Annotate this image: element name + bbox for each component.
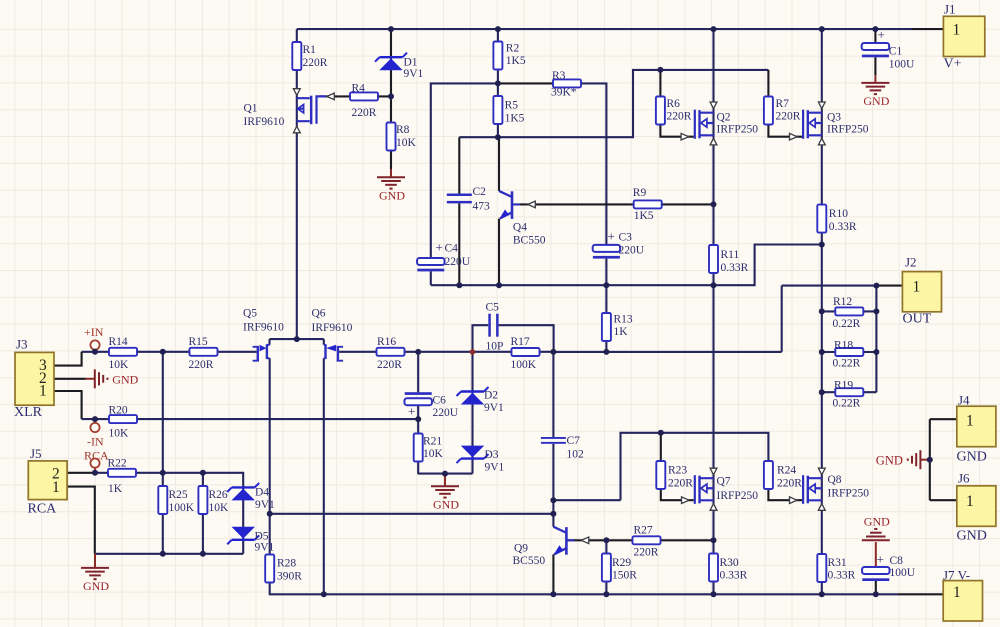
wire C1 top stub: [874, 29, 876, 43]
svg-text:D1: D1: [404, 57, 418, 69]
arrow Q3 gate: [790, 133, 798, 140]
junction: [92, 416, 98, 422]
connector J6: [957, 471, 996, 544]
svg-text:10K: 10K: [109, 428, 130, 440]
junction: [873, 283, 879, 289]
wire J5 ground stem: [94, 554, 96, 568]
svg-text:GND: GND: [876, 454, 903, 468]
svg-text:J5: J5: [30, 446, 42, 461]
svg-text:1K5: 1K5: [505, 113, 525, 125]
wire R3 left: [498, 82, 554, 84]
wire C5 bracket: [473, 325, 554, 352]
wire R29 line: [605, 540, 607, 594]
capacitor C1: [862, 27, 915, 71]
junction: [550, 511, 556, 517]
arrow Q8 gate: [790, 497, 798, 504]
svg-text:GND: GND: [433, 497, 459, 511]
wire R6 to Q2 gate: [660, 125, 693, 137]
svg-text:0.22R: 0.22R: [833, 358, 861, 370]
wire R8 ground stem: [390, 169, 392, 177]
arrow Q3 drain: [818, 102, 825, 109]
resistor R16: [377, 336, 405, 371]
wire Q9 emitter: [552, 554, 554, 594]
svg-text:1K: 1K: [614, 326, 629, 338]
svg-text:1: 1: [966, 493, 974, 510]
svg-text:IRFP250: IRFP250: [827, 124, 869, 136]
svg-text:R30: R30: [720, 557, 739, 569]
svg-text:0.33R: 0.33R: [828, 570, 856, 582]
junction: [658, 430, 664, 436]
zener diode D2: [457, 387, 505, 414]
resistor R26: [198, 486, 229, 514]
resistor R25: [158, 486, 194, 514]
svg-text:BC550: BC550: [513, 235, 546, 247]
arrow Q1 drain: [293, 126, 300, 133]
junction: [92, 470, 98, 476]
svg-text:1: 1: [953, 584, 961, 601]
svg-text:GND: GND: [379, 188, 405, 202]
svg-text:R29: R29: [612, 557, 631, 569]
svg-text:Q9: Q9: [514, 543, 528, 555]
connector J4: [957, 393, 996, 465]
svg-text:RCA: RCA: [84, 449, 109, 463]
svg-text:R12: R12: [833, 296, 852, 308]
junction: [470, 349, 476, 355]
svg-text:R21: R21: [423, 436, 442, 448]
svg-text:10P: 10P: [486, 341, 504, 353]
wire OUT node: [782, 285, 877, 287]
arrow Q4 base: [528, 201, 536, 208]
svg-text:J7 V-: J7 V-: [943, 568, 970, 583]
resistor R8: [387, 123, 417, 151]
transistor Q7: [694, 475, 759, 504]
wire +IN stem: [94, 349, 96, 352]
arrow Q8 source: [818, 504, 825, 511]
svg-text:10K: 10K: [396, 137, 417, 149]
junction: [711, 26, 717, 32]
svg-text:39K*: 39K*: [551, 87, 577, 99]
junction: [92, 349, 98, 355]
junction: [200, 470, 206, 476]
svg-text:102: 102: [567, 449, 585, 461]
wire R6 top stub: [659, 70, 661, 97]
svg-text:Q6: Q6: [312, 308, 326, 320]
svg-text:220R: 220R: [777, 478, 802, 490]
svg-text:220U: 220U: [619, 245, 645, 257]
junction: [160, 470, 166, 476]
resistor R29: [602, 554, 637, 582]
transistor Q5: [243, 308, 284, 362]
wire zener row to Q9: [270, 513, 554, 515]
wire R19 row: [822, 391, 877, 393]
svg-text:9V1: 9V1: [484, 402, 504, 414]
wire feedback row: [554, 351, 782, 353]
junction: [819, 389, 825, 395]
junction: [819, 349, 825, 355]
wire D2 D3 branch: [471, 352, 473, 474]
svg-text:R8: R8: [396, 124, 410, 136]
svg-text:220R: 220R: [776, 111, 801, 123]
wire J7 pin: [898, 593, 943, 595]
junction: [495, 134, 501, 140]
wire signal ground rail: [95, 553, 243, 555]
svg-text:C6: C6: [433, 395, 447, 407]
svg-text:D3: D3: [485, 449, 499, 461]
svg-text:220U: 220U: [433, 407, 459, 419]
junction: [711, 591, 717, 597]
arrow Q3 source: [818, 138, 825, 145]
svg-text:+IN: +IN: [84, 325, 104, 339]
resistor R21: [414, 434, 444, 462]
capacitor C3: [593, 229, 645, 259]
svg-text:1: 1: [52, 479, 60, 496]
resistor R18: [833, 340, 864, 370]
wire Q3 R10 R12 Q8 R31 line: [821, 29, 823, 594]
svg-text:GND: GND: [83, 579, 109, 593]
svg-text:R23: R23: [668, 465, 687, 477]
zener diode D3: [457, 446, 505, 474]
wire feedback riser: [781, 286, 783, 352]
svg-text:10K: 10K: [209, 502, 230, 514]
svg-text:IRF9610: IRF9610: [244, 116, 285, 128]
connector J7: [943, 568, 983, 622]
svg-text:GND: GND: [957, 450, 987, 465]
svg-text:J4: J4: [958, 393, 970, 408]
resistor R19: [833, 380, 864, 410]
resistor R13: [602, 313, 633, 341]
wire C8 ground stem: [875, 542, 877, 567]
wire C6 branch upper: [417, 352, 419, 392]
wire Q5 drain to R28 to V- rail: [270, 358, 898, 594]
junction: [603, 282, 609, 288]
resistor R12: [833, 296, 864, 330]
svg-text:C2: C2: [473, 186, 487, 198]
junction: [711, 537, 717, 543]
node -IN terminal: [90, 423, 99, 432]
wire output ladder right: [875, 286, 877, 393]
svg-text:100U: 100U: [889, 59, 915, 71]
resistor R3: [551, 70, 581, 99]
zener diode D1: [375, 53, 424, 80]
node RCA terminal: [90, 459, 99, 468]
junction: [550, 591, 556, 597]
junction: [819, 308, 825, 314]
wire Q4 collector: [498, 137, 500, 191]
junction: [873, 349, 879, 355]
svg-text:IRFP250: IRFP250: [717, 490, 759, 502]
svg-text:10K: 10K: [109, 359, 130, 371]
svg-text:IRFP250: IRFP250: [717, 124, 759, 136]
svg-text:R7: R7: [776, 98, 790, 110]
wire R7 to Q3 gate: [768, 125, 802, 137]
resistor R11: [709, 245, 749, 274]
svg-text:0.22R: 0.22R: [833, 318, 861, 330]
junction: [415, 416, 421, 422]
svg-text:220R: 220R: [668, 478, 693, 490]
junction: [550, 497, 556, 503]
svg-text:9V1: 9V1: [255, 542, 275, 554]
svg-text:+: +: [608, 229, 615, 244]
wire R14 junction to R25: [162, 352, 164, 554]
svg-text:150R: 150R: [612, 570, 637, 582]
junction: [819, 242, 825, 248]
svg-text:R1: R1: [303, 44, 317, 56]
junction: [160, 349, 166, 355]
ground: [431, 486, 459, 511]
svg-text:1K: 1K: [108, 483, 123, 495]
svg-text:Q4: Q4: [513, 222, 527, 234]
resistor R30: [709, 554, 748, 582]
svg-text:100K: 100K: [511, 359, 537, 371]
svg-text:0.22R: 0.22R: [833, 398, 861, 410]
svg-text:100K: 100K: [169, 502, 195, 514]
resistor R2: [493, 42, 525, 70]
wire J1 pin: [912, 28, 943, 30]
junction: [495, 80, 501, 86]
svg-text:Q1: Q1: [244, 103, 258, 115]
svg-text:9V1: 9V1: [255, 499, 275, 511]
junction: [603, 537, 609, 543]
svg-text:1: 1: [913, 279, 921, 296]
svg-text:R25: R25: [169, 489, 188, 501]
wire R2 R5 line: [497, 29, 499, 137]
svg-text:Q3: Q3: [827, 112, 841, 124]
svg-text:GND: GND: [863, 94, 889, 108]
junction: [603, 349, 609, 355]
svg-text:Q2: Q2: [717, 112, 731, 124]
svg-text:100U: 100U: [890, 567, 916, 579]
junction: [873, 308, 879, 314]
wire C4 bottom: [430, 271, 432, 285]
node +IN terminal: [90, 340, 99, 349]
junction: [496, 282, 502, 288]
resistor R17: [511, 336, 540, 371]
svg-text:0.33R: 0.33R: [720, 570, 748, 582]
svg-text:R13: R13: [614, 314, 633, 326]
junction: [321, 591, 327, 597]
svg-text:Q5: Q5: [243, 308, 257, 320]
zener diode D4: [227, 483, 275, 511]
wire J3 ground stem: [85, 378, 94, 380]
transistor Q2: [694, 110, 759, 139]
transistor Q9: [553, 527, 574, 555]
svg-text:+: +: [436, 240, 443, 255]
wire J4 J6 ground link: [929, 419, 931, 500]
junction: [872, 26, 878, 32]
ground: [377, 177, 405, 202]
svg-text:R9: R9: [633, 187, 647, 199]
svg-text:R19: R19: [834, 380, 853, 392]
transistor Q6: [312, 308, 353, 362]
wire R23 R24 net: [621, 433, 769, 500]
resistor R22: [108, 458, 137, 496]
wire J2 pin: [876, 285, 902, 287]
transistor Q4: [499, 191, 546, 247]
wire +IN row to Q5 gate: [82, 351, 257, 353]
transistor Q1: [244, 96, 327, 128]
svg-text:R5: R5: [505, 100, 519, 112]
svg-text:BC550: BC550: [513, 555, 546, 567]
svg-text:R6: R6: [667, 98, 681, 110]
arrow Q1 gate: [327, 93, 335, 100]
wire C3 bottom to R13 and row: [605, 259, 607, 352]
wire -IN row: [82, 418, 419, 420]
connector J5: [28, 446, 68, 517]
connector J1: [943, 2, 984, 72]
junction: [495, 26, 501, 32]
wire R18 row: [822, 351, 877, 353]
connector J3: [14, 337, 54, 421]
arrow Q2 drain: [710, 102, 717, 109]
arrow Q8 drain: [818, 468, 825, 475]
resistor R7: [764, 97, 801, 125]
junction: [550, 349, 556, 355]
svg-text:XLR: XLR: [14, 405, 43, 420]
wire GND tap stem: [920, 459, 929, 461]
connector J2: [902, 255, 941, 327]
wire D1 R8 line: [390, 29, 392, 169]
wire -IN stem: [94, 419, 96, 423]
svg-text:220R: 220R: [352, 107, 377, 119]
junction: [927, 457, 933, 463]
svg-text:1K5: 1K5: [506, 55, 526, 67]
svg-text:390R: 390R: [277, 571, 302, 583]
svg-text:C8: C8: [890, 555, 904, 567]
svg-text:R16: R16: [377, 336, 396, 348]
resistor R27: [633, 525, 661, 559]
svg-text:C4: C4: [445, 243, 459, 255]
svg-text:0.33R: 0.33R: [829, 221, 857, 233]
svg-text:9V1: 9V1: [485, 462, 505, 474]
resistor R20: [109, 405, 138, 440]
wire C7 lower to Q9: [552, 444, 554, 527]
wire C8 bottom stub: [875, 581, 877, 594]
svg-text:C3: C3: [619, 232, 633, 244]
svg-text:1: 1: [953, 22, 961, 39]
svg-text:GND: GND: [112, 373, 138, 387]
arrow Q7 source: [710, 504, 717, 511]
capacitor C4: [417, 240, 471, 272]
transistor Q8: [802, 474, 869, 504]
svg-text:R10: R10: [829, 208, 848, 220]
wire R5 to R6 R7 rail: [459, 70, 768, 137]
junction: [711, 282, 717, 288]
ground: [861, 83, 889, 108]
wire Q9 collector node: [553, 499, 620, 501]
wire V+ rail: [297, 28, 912, 30]
svg-text:220R: 220R: [189, 359, 214, 371]
svg-text:220R: 220R: [377, 359, 402, 371]
svg-text:+: +: [877, 552, 884, 567]
resistor R6: [656, 97, 692, 125]
wire R4 row: [320, 95, 391, 97]
arrow Q2 source: [710, 138, 717, 145]
wire Q5-Q6 source rail: [270, 339, 324, 345]
junction: [160, 551, 166, 557]
svg-text:C7: C7: [567, 435, 581, 447]
junction: [388, 26, 394, 32]
wire C1 ground stem: [874, 75, 876, 83]
svg-text:R26: R26: [209, 489, 228, 501]
svg-text:RCA: RCA: [28, 502, 58, 517]
svg-text:9V1: 9V1: [404, 68, 424, 80]
wire J5 pin1: [67, 487, 95, 554]
wire Q1 drain-source line: [296, 29, 298, 339]
resistor R15: [189, 336, 218, 371]
junction: [819, 591, 825, 597]
resistor R24: [764, 461, 802, 490]
svg-text:R24: R24: [777, 465, 796, 477]
wire Q2 R11 Q7 R30 line: [712, 29, 714, 594]
wire C2 upper: [458, 137, 460, 193]
wire Q6 drain: [323, 358, 325, 594]
wire C7 upper: [552, 352, 554, 437]
svg-text:0.33R: 0.33R: [721, 262, 749, 274]
svg-text:J6: J6: [958, 471, 970, 486]
svg-text:IRFP250: IRFP250: [828, 488, 870, 500]
svg-text:R2: R2: [506, 43, 520, 55]
svg-text:D4: D4: [255, 487, 269, 499]
wire J3 pin1: [54, 391, 82, 419]
wire C2 lower: [458, 203, 460, 285]
svg-text:R27: R27: [634, 525, 653, 537]
junction: [657, 67, 663, 73]
capacitor C8: [862, 552, 916, 582]
svg-text:V+: V+: [944, 57, 962, 72]
wire R21 ground stem: [444, 474, 446, 487]
svg-text:Q8: Q8: [828, 474, 842, 486]
svg-text:R18: R18: [834, 340, 853, 352]
wire Q4 base R9 row: [515, 203, 714, 205]
wire Q9 base R27 row: [568, 539, 714, 541]
svg-text:473: 473: [473, 201, 491, 213]
wire R24 to Q8 gate: [768, 489, 802, 500]
svg-text:220R: 220R: [667, 111, 692, 123]
resistor R4: [350, 83, 378, 119]
svg-text:R15: R15: [189, 336, 208, 348]
svg-text:1K5: 1K5: [634, 210, 654, 222]
wire J6 pin: [930, 499, 957, 501]
wire Q6 gate row: [339, 351, 553, 353]
junction: [711, 201, 717, 207]
svg-text:D2: D2: [484, 390, 498, 402]
wire C6 to -IN row and R21: [417, 405, 419, 473]
svg-text:220U: 220U: [445, 256, 471, 268]
arrow Q7 gate: [682, 497, 690, 504]
svg-text:R22: R22: [108, 458, 127, 470]
resistor R9: [633, 187, 662, 222]
svg-text:OUT: OUT: [903, 312, 932, 327]
wire R7 top stub: [767, 70, 769, 97]
svg-text:C1: C1: [889, 46, 903, 58]
junction: [456, 282, 462, 288]
wire C1 bottom stub: [874, 57, 876, 75]
junction: [294, 336, 300, 342]
resistor R1: [292, 42, 327, 70]
resistor R23: [656, 461, 693, 490]
wire R21 D3 ground link: [418, 473, 473, 475]
zener diode D5: [227, 527, 274, 554]
wire J5 pin2: [67, 472, 95, 474]
svg-text:220R: 220R: [634, 547, 659, 559]
svg-text:R31: R31: [828, 557, 847, 569]
wire R23 top stub: [660, 433, 662, 461]
junction: [388, 93, 394, 99]
wire J4 pin: [930, 418, 957, 420]
junction: [873, 591, 879, 597]
resistor R31: [817, 554, 855, 582]
junction: [415, 349, 421, 355]
